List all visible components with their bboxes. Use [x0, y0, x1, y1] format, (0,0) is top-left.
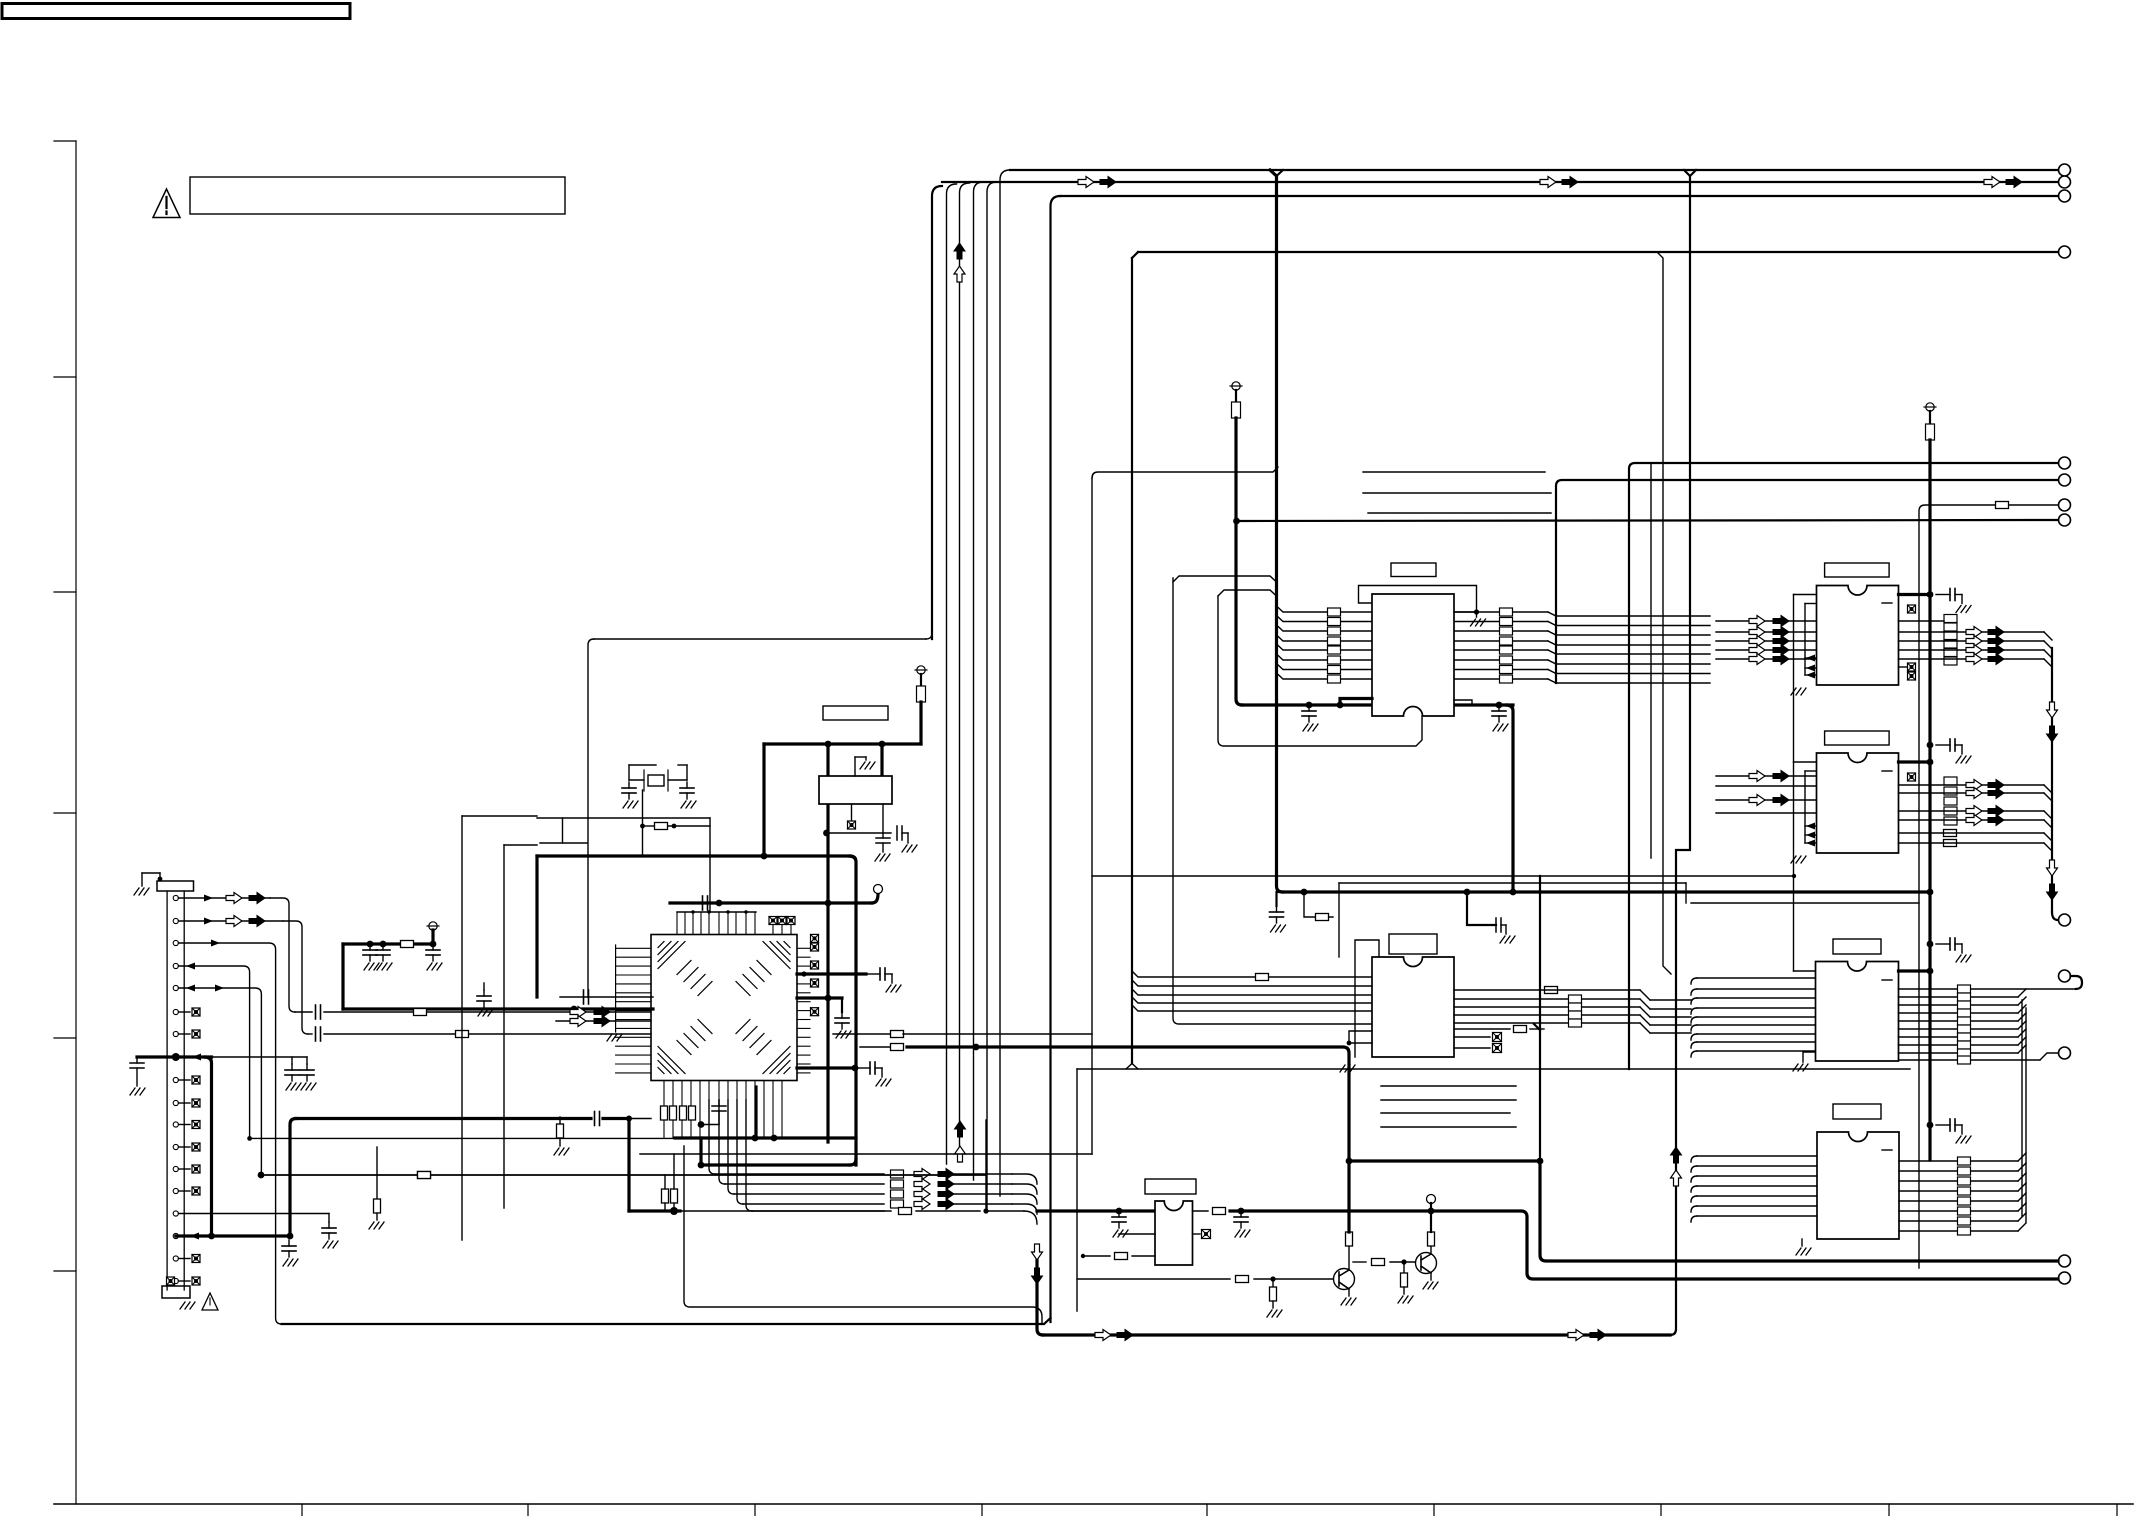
RA-Q arrow s: [938, 1169, 954, 1180]
L1 tap chamfer 2: [1690, 170, 1696, 176]
up arrows 960: [955, 1121, 966, 1162]
U3 arrow rs: [1988, 815, 2004, 826]
cap 1930a: [1936, 589, 1971, 613]
Q1 emitter gnd: [1341, 1289, 1356, 1305]
res v683: [680, 1106, 687, 1120]
terminal: [2059, 1272, 2071, 1284]
warning note box: [190, 177, 565, 214]
net V1540 up: [1539, 876, 1541, 1030]
U4 left pin: [1691, 1042, 1817, 1048]
bus rip: [1132, 980, 1372, 986]
RA-Q wire: [954, 1183, 1012, 1185]
junction 1340: [1337, 702, 1344, 709]
cap 370: [363, 944, 379, 970]
U3 arrow rs: [1988, 780, 2004, 791]
UM right pin: [1454, 998, 1640, 1000]
cap 433: [426, 944, 442, 970]
border tick: [1888, 1504, 1890, 1516]
pin xbox: [178, 1076, 200, 1084]
junction 1119: [1116, 1208, 1123, 1215]
wire y639: [594, 633, 932, 639]
U3 arrow ro: [1966, 780, 1982, 791]
resistor array RA4: [1958, 985, 1971, 1064]
U5 right bend: [2018, 1193, 2026, 1201]
tp 878: [872, 885, 883, 904]
net 1068 stub: [797, 1062, 891, 1086]
box QFP h816: [462, 815, 537, 817]
U-T vcc tap: [1340, 699, 1372, 706]
U2 arrow ro: [1966, 654, 1982, 665]
bottom border line: [54, 1503, 2133, 1505]
box around U-M: [1339, 883, 1686, 957]
wire 1057 ext: [212, 1056, 308, 1058]
U5 gnd: [1796, 1239, 1811, 1255]
res v664: [661, 1106, 668, 1120]
res R-bus: [1256, 974, 1269, 981]
junction 574: [571, 1006, 578, 1013]
box QFP v504: [503, 845, 505, 1208]
U4 right pin: [1899, 1037, 2027, 1045]
UM bot xbox 2: [1454, 1044, 1502, 1053]
QFP right pins: [797, 948, 810, 1073]
U4 right pin: [1899, 1029, 2027, 1037]
U2 arrow o: [1749, 616, 1765, 627]
pin xbox: [178, 1008, 200, 1016]
junction 764 856: [761, 853, 768, 860]
bus arrow 3: [1540, 177, 1556, 188]
U3 bracket outer: [1791, 762, 1817, 863]
net to T1261: [1540, 1161, 2058, 1261]
warning triangle: [153, 189, 180, 218]
terminal: [2059, 1047, 2071, 1059]
xbox U2 a: [1908, 605, 1916, 613]
cap 383: [376, 944, 392, 970]
U6 right res: [1193, 1208, 1431, 1215]
U-T right pin: [1454, 631, 1710, 635]
net L1: [1010, 169, 2058, 171]
rail V882: [880, 744, 883, 776]
junction U4: [1927, 968, 1934, 975]
branch to box: [1304, 892, 1333, 917]
connector bottom: [162, 1286, 195, 1309]
net 1138: [247, 1136, 675, 1141]
junction 1273: [1270, 1276, 1275, 1281]
wire to T920: [2052, 912, 2058, 920]
junction 828 903: [825, 900, 832, 907]
U-T left pin: [1277, 664, 1373, 670]
U2 arrow rs: [1988, 627, 2004, 638]
rail V629: [627, 1119, 630, 1212]
rail V211: [206, 1057, 212, 1236]
junction 261: [258, 1172, 265, 1179]
margin tick: [54, 591, 76, 593]
junction 1930c: [1927, 941, 1934, 948]
transistor Q2: [1416, 1253, 1437, 1274]
junction 774: [771, 1135, 778, 1142]
U5 right pin: [1899, 1170, 2018, 1172]
rail V537: [535, 856, 538, 997]
U4 right pin: [1899, 1013, 2027, 1021]
U2 arrow s: [1773, 654, 1789, 665]
RA-Q arrow o: [914, 1199, 930, 1210]
U5 right bend: [2018, 1223, 2026, 1231]
net 1034: [308, 1027, 651, 1041]
res 897: [891, 1044, 904, 1051]
U3 arrow ro: [1966, 815, 1982, 826]
arrow V2052 o: [2047, 702, 2058, 718]
arrow V2052 s2: [2047, 884, 2058, 900]
border tick: [1433, 1504, 1435, 1516]
wire y843: [540, 842, 587, 844]
U4 right pin last: [1899, 1053, 2059, 1060]
net bus 1057: [137, 1054, 212, 1061]
U3 pin1 dash: [1882, 770, 1892, 772]
terminal: [2059, 457, 2071, 469]
U2 arrow s: [1773, 636, 1789, 647]
rail y744: [764, 742, 921, 745]
cap ser 903: [703, 896, 708, 910]
U2 left pin: [1716, 658, 1817, 660]
pin 5 wire: [178, 985, 261, 1176]
IC U2: [1817, 586, 1899, 686]
U-T right pin: [1454, 641, 1710, 645]
pin xbox: [178, 1121, 200, 1129]
wire bus vertical e: [987, 182, 997, 1211]
bus arrow 6: [2006, 177, 2022, 188]
res v560: [554, 1117, 569, 1155]
junction 383: [380, 941, 387, 948]
IC U5: [1817, 1132, 1899, 1239]
IC U-T label box: [1391, 563, 1436, 577]
junction 1930b: [1927, 742, 1934, 749]
wire y1117b: [629, 1118, 651, 1120]
U2 arrow s: [1773, 627, 1789, 638]
rail V857: [850, 856, 856, 1165]
bus arrows B: [1568, 1330, 1606, 1341]
IC U4 label box: [1833, 939, 1881, 954]
rail VD1: [1270, 170, 1283, 892]
pin 4 wire: [178, 963, 249, 1139]
U2 arrow ro: [1966, 636, 1982, 647]
wire y590: [1218, 590, 1277, 596]
junction 1513: [1510, 889, 1517, 896]
U3 arrow o: [1749, 771, 1765, 782]
border tick: [2116, 1504, 2118, 1516]
cap gnd xtal R: [680, 782, 696, 808]
crystal wires: [629, 765, 687, 780]
cap 307: [300, 1057, 316, 1090]
U5 left pin: [1691, 1176, 1817, 1182]
U2 arrow o: [1749, 645, 1765, 656]
U3 tap: [1805, 823, 1817, 830]
U2 arrow rs: [1988, 654, 2004, 665]
QFP bottom pins long: [700, 1081, 782, 1139]
wire bus vertical d: [974, 182, 984, 1180]
subcircuit box U4: [1691, 902, 1919, 904]
U5 right bend: [2018, 1183, 2026, 1191]
U6 bot pin: [1081, 1253, 1155, 1260]
U3 right pin 6: [1899, 843, 2053, 851]
UM res 1029: [1454, 1026, 1544, 1033]
UM right pin: [1454, 1022, 1640, 1024]
rail y856: [537, 854, 850, 857]
resistor array RA3: [1944, 777, 1957, 825]
cap 137: [130, 1057, 145, 1095]
U4 left pin: [1691, 1008, 1817, 1014]
U2 arrow o: [1749, 654, 1765, 665]
U2 tap: [1805, 672, 1817, 679]
net L3: [1061, 195, 2059, 197]
U4 left pin: [1691, 1034, 1817, 1040]
wire V1663: [1657, 252, 1671, 974]
terminal: [2059, 914, 2071, 926]
U3 arrow rs: [1988, 806, 2004, 817]
U4 left pin: [1691, 1025, 1817, 1031]
terminal: [2059, 499, 2071, 511]
U2 left pin: [1716, 620, 1817, 622]
net N480: [1556, 480, 2058, 683]
U3 res b: [1944, 840, 1957, 847]
U5 left pin: [1691, 1186, 1817, 1192]
wire y576: [1173, 576, 1277, 582]
U3 left pin: [1716, 812, 1817, 814]
U2 arrow o: [1749, 627, 1765, 638]
U5 right pin: [1899, 1230, 2018, 1232]
net 1279 base: [1077, 1276, 1334, 1283]
border tick: [981, 1504, 983, 1516]
arrow wire B: [556, 1016, 651, 1027]
U3 top pin: [1899, 760, 1931, 763]
connector pins: [173, 895, 178, 1283]
margin tick: [54, 1037, 76, 1039]
IC U3: [1817, 753, 1899, 853]
connector top bar: [157, 881, 194, 891]
junction 976: [973, 1044, 980, 1051]
UM right pin: [1454, 989, 1640, 991]
U-T top bracket: [1359, 586, 1486, 627]
resistor array RA5: [1958, 1157, 1971, 1235]
xbox U2 b: [1899, 663, 1916, 671]
junction 370: [367, 941, 374, 948]
junction 828 744: [825, 741, 832, 748]
U2 right pin: [1899, 659, 2053, 667]
res 407: [401, 941, 414, 948]
label box REG: [823, 706, 888, 720]
U4 left pin: [1691, 998, 1817, 1004]
U6 left cap wire: [1119, 1233, 1155, 1235]
U-T pin wire r: [1454, 609, 1479, 614]
U4 top-left pin: [1794, 970, 1817, 972]
wire V1651: [1650, 463, 1652, 858]
net y1069: [1077, 1068, 1910, 1070]
rail V764: [762, 744, 765, 856]
junction bus pin: [172, 1053, 180, 1061]
border tick: [301, 1504, 303, 1516]
bus arrow 5: [1984, 177, 2000, 188]
UM bot xbox 1: [1454, 1033, 1502, 1042]
border tick: [754, 1504, 756, 1516]
cap 289: [282, 1240, 298, 1266]
U2 arrow ro: [1966, 627, 1982, 638]
RA-Q arrow s: [938, 1179, 954, 1190]
net thick 1211: [629, 1209, 1155, 1212]
U4 right pin: [1899, 1021, 2027, 1029]
U2 bracket outer: [1791, 595, 1817, 972]
U2 left pin: [1716, 631, 1817, 633]
res gnd 1404: [1398, 1262, 1413, 1303]
QFP left pins: [616, 948, 651, 1073]
U2 arrow rs: [1988, 645, 2004, 656]
border tick: [527, 1504, 529, 1516]
U-T right pin: [1454, 612, 1710, 616]
REG xbox: [848, 804, 856, 829]
RA-Q arrow o: [914, 1189, 930, 1200]
resistor array RA2: [1944, 615, 1957, 666]
res 1322: [1316, 914, 1329, 921]
junction U2 pin: [1927, 591, 1934, 598]
wire 1124: [701, 1124, 719, 1126]
wire V986: [983, 1120, 988, 1214]
QFP xboxes right: [811, 934, 819, 1015]
riser bundle U4: [2022, 1000, 2026, 1222]
bus up arrows top: [954, 243, 965, 282]
rail V290: [290, 1119, 296, 1237]
U2 top pin: [1899, 593, 1931, 596]
bus rip: [1132, 989, 1372, 995]
xbox U2 c: [1908, 672, 1916, 680]
U5 right pin: [1899, 1180, 2018, 1182]
cap 1501: [1496, 918, 1515, 943]
res v673: [670, 1106, 677, 1120]
UM left bracket: [1347, 1031, 1372, 1045]
UM stair: [1640, 1007, 1691, 1017]
U-T right pin: [1454, 622, 1710, 626]
IC U6 label box: [1145, 1179, 1196, 1194]
U3 left pin: [1716, 775, 1817, 777]
arrow V2052 o2: [2047, 860, 2058, 876]
U4 right pin first: [1899, 976, 2083, 989]
U3 arrow s: [1773, 771, 1789, 782]
U5 right pin: [1899, 1210, 2018, 1212]
wire V710: [709, 818, 711, 912]
QFP xboxes top: [769, 917, 795, 935]
rail V756: [754, 1087, 757, 1138]
resistor array RA-T-right: [1500, 608, 1513, 683]
net 1175: [259, 1172, 986, 1179]
note lines bottom: [1381, 1086, 1516, 1127]
QFP bottom pins res2: [664, 1120, 691, 1138]
RA-Q arrow o: [914, 1169, 930, 1180]
junction 1467: [1464, 889, 1471, 896]
cap 1499: [1492, 705, 1508, 731]
QFP bottom pins fan: [709, 1081, 746, 1101]
U-T left pin: [1277, 673, 1373, 679]
res v674: [671, 1154, 678, 1211]
border tick: [1206, 1504, 1208, 1516]
margin tick: [54, 376, 76, 378]
converge: [1012, 1174, 1037, 1214]
IC U3 label box: [1825, 731, 1890, 745]
U-T right pin 7: [1454, 700, 1472, 705]
U3 right pin: [1899, 793, 2053, 801]
res v692: [689, 1106, 696, 1120]
U2 tap: [1805, 655, 1817, 662]
xbox U3 a: [1908, 773, 1916, 781]
U5 right bend: [2018, 1213, 2026, 1221]
bus arrow 4: [1562, 177, 1578, 188]
U-T right pin: [1454, 670, 1710, 674]
UM stair: [1640, 1015, 1691, 1025]
net 1236: [176, 1233, 290, 1240]
wire bus vertical a: [932, 186, 942, 639]
wire V642: [642, 790, 644, 856]
wire box V1218: [1218, 596, 1422, 746]
U-T left pin: [1277, 654, 1373, 660]
bus line f: [1173, 578, 1372, 1024]
REG cap right: [875, 804, 890, 861]
U3 arrow ro: [1966, 806, 1982, 817]
terminal: [2059, 190, 2071, 202]
bus rip: [1132, 971, 1372, 977]
UM right pin: [1454, 1006, 1640, 1008]
U5 right pin: [1899, 1200, 2018, 1202]
junction 1241: [1238, 1208, 1245, 1215]
net thick 1009: [343, 1007, 653, 1010]
pin xbox: [178, 1255, 200, 1263]
UM stair: [1640, 999, 1691, 1009]
net 1034 wire: [833, 1031, 1092, 1038]
junction 290 1236: [287, 1233, 294, 1240]
U3 left pin: [1716, 785, 1817, 787]
wire y1175: [265, 1172, 986, 1179]
bus rip: [1132, 1005, 1372, 1011]
Q2 collector: [1428, 1211, 1435, 1254]
U3 right pin: [1899, 820, 2053, 828]
U2 pin1 dash: [1882, 602, 1892, 604]
U-T left pin: [1277, 606, 1373, 612]
U3 left pin: [1716, 799, 1817, 801]
U5 left pin: [1691, 1216, 1817, 1222]
RA-Q wire: [954, 1193, 1012, 1195]
net N463: [1629, 463, 2058, 1069]
QFP top pin dots: [691, 910, 747, 913]
rail V343: [341, 944, 344, 1009]
net 974 stub: [797, 968, 901, 992]
pin xbox: [178, 1030, 200, 1038]
junction 755: [752, 1135, 759, 1142]
U3 arrow rs: [1988, 788, 2004, 799]
QFP left rail: [607, 945, 622, 1041]
Q2 out terminal: [1427, 1195, 1436, 1212]
wire V1091: [1091, 478, 1093, 1154]
cap 1309: [1302, 705, 1318, 731]
U5 right bend: [2018, 1153, 2026, 1161]
crystal X1: [644, 770, 668, 791]
res gnd 1273: [1267, 1279, 1282, 1317]
U5 right bend: [2018, 1163, 2026, 1171]
wire V588: [588, 639, 594, 997]
terminal: [2059, 474, 2071, 486]
terminal: [2059, 970, 2071, 982]
net y903: [670, 901, 872, 904]
pin 1 wire: [178, 893, 295, 1013]
U2 arrow rs: [1988, 636, 2004, 647]
RA-Q wire: [954, 1173, 1012, 1175]
bus arrow down: [1032, 1244, 1043, 1284]
net 1118: [296, 1112, 632, 1126]
wire y1154: [640, 1153, 1092, 1155]
res 1211b: [899, 1208, 912, 1215]
